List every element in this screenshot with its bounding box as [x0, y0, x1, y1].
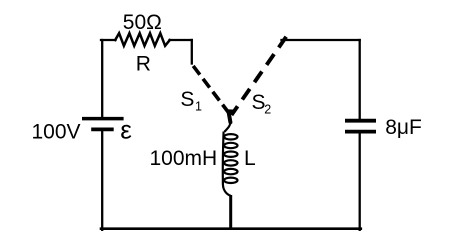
capacitor C plates [345, 119, 376, 123]
svg-text:8μF: 8μF [385, 116, 422, 139]
svg-text:1: 1 [195, 100, 202, 114]
wire resistor to S1 drop [170, 39, 192, 41]
svg-text:S: S [180, 88, 194, 111]
switch S2 (dashed blade) [232, 37, 287, 115]
svg-text:50Ω: 50Ω [123, 11, 162, 34]
wire right vertical (top segment, corner to capacitor) [359, 40, 361, 119]
wire inductor bottom lead [229, 195, 232, 229]
svg-text:2: 2 [264, 102, 271, 116]
svg-text:100V: 100V [32, 121, 81, 144]
wire top-left horizontal (corner to resistor) [101, 39, 116, 41]
wire top-right horizontal (S2 pole to top-right corner) [282, 39, 360, 41]
svg-text:L: L [244, 147, 256, 170]
resistor R (zigzag) [115, 33, 170, 46]
wire left vertical (top segment, battery to top-left corner) [101, 40, 103, 117]
wire vertical drop to switch S1 pole [191, 40, 193, 64]
svg-text:100mH: 100mH [150, 147, 218, 170]
svg-text:R: R [136, 52, 151, 75]
wire left vertical (bottom segment, battery to bottom wire) [101, 131, 103, 230]
wire right vertical (bottom segment, capacitor to bottom wire) [359, 134, 361, 230]
switch common terminal (node to inductor) [229, 112, 231, 122]
wire bottom horizontal [101, 227, 361, 230]
svg-text:ε: ε [120, 115, 132, 145]
inductor L (coil) [223, 122, 238, 196]
battery (emf source) plates [82, 117, 124, 121]
switch S1 (dashed blade) [193, 66, 228, 113]
